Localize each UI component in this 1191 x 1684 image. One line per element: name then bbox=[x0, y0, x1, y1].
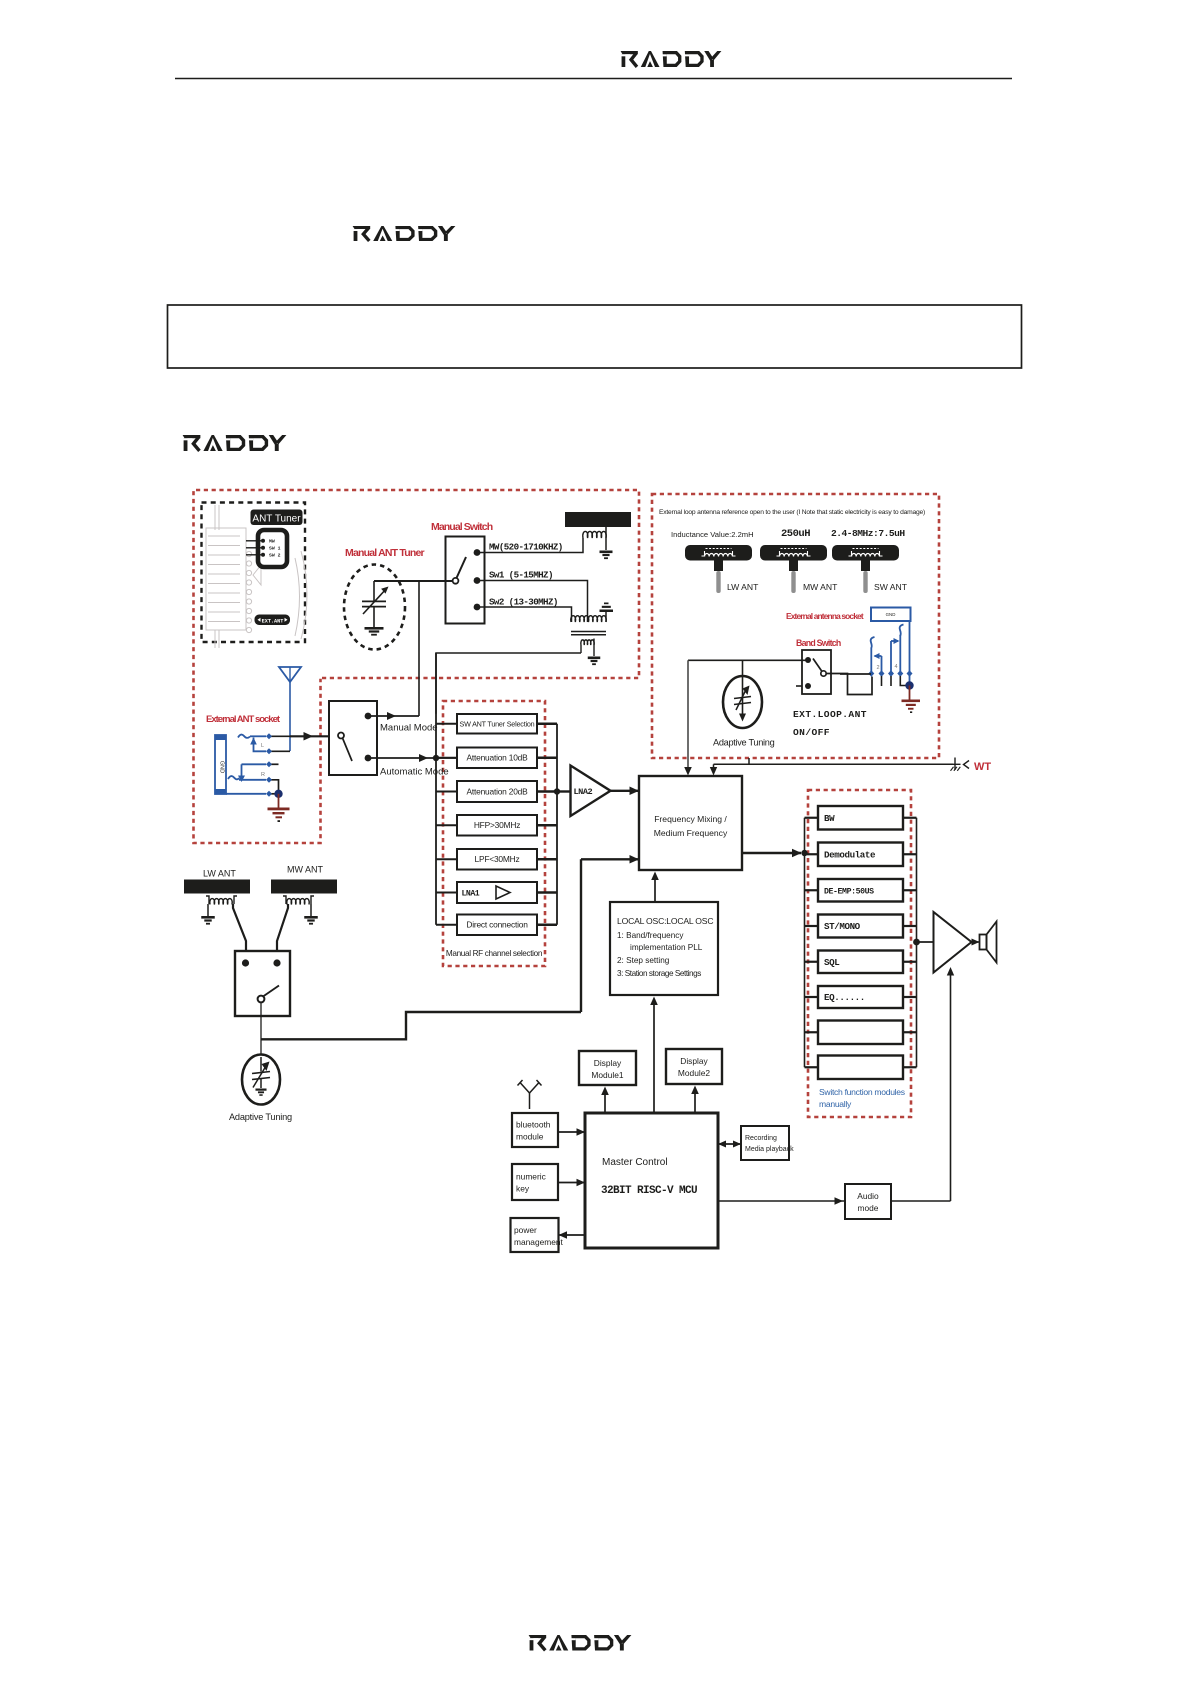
svg-text:32BIT RISC-V MCU: 32BIT RISC-V MCU bbox=[601, 1185, 697, 1197]
jack contact 1 (hook) bbox=[871, 637, 875, 649]
wire: ring contact to antenna lead bbox=[269, 750, 290, 752]
wire stubs: LNA1 bbox=[436, 892, 457, 894]
wire stubs: Attenuation 10dB bbox=[436, 757, 457, 759]
svg-text:External loop antenna referenc: External loop antenna reference open to … bbox=[659, 509, 925, 516]
wire: tuned LW/MW into mixer bbox=[581, 858, 639, 860]
svg-text:management: management bbox=[514, 1237, 564, 1247]
ground (MW bar) bbox=[600, 551, 613, 554]
wire stubs: Demodulate block bbox=[805, 853, 819, 855]
svg-text:Sw1 (5-15MHZ): Sw1 (5-15MHZ) bbox=[489, 570, 553, 581]
RADDY logo (footer) bbox=[528, 1635, 631, 1651]
wire: transformer to RF bus bbox=[436, 653, 581, 714]
red dashed region: manual RF channel selection bbox=[443, 701, 545, 966]
block: DE-EMP:50US bbox=[818, 879, 903, 902]
svg-text:bluetooth: bluetooth bbox=[516, 1120, 551, 1130]
svg-text:SW 1: SW 1 bbox=[269, 546, 281, 552]
wire stubs: Attenuation 20dB bbox=[436, 791, 457, 793]
LW/MW switch box bbox=[235, 951, 290, 1016]
manual tuner dashed ellipse bbox=[344, 565, 405, 650]
MW loop antenna bar bbox=[760, 545, 827, 561]
wire: MCU to LO bbox=[653, 1004, 655, 1113]
switch contacts bbox=[474, 549, 481, 556]
svg-text:MW: MW bbox=[269, 539, 275, 545]
svg-text:EQ......: EQ...... bbox=[824, 992, 865, 1003]
red dashed region: switch function modules bbox=[808, 790, 911, 1117]
svg-text:SW ANT: SW ANT bbox=[874, 582, 908, 592]
header rule bbox=[175, 78, 1012, 80]
block: SQL bbox=[818, 951, 903, 974]
svg-text:3: Station storage Settings: 3: Station storage Settings bbox=[617, 969, 701, 978]
ground (manual tuner) bbox=[365, 627, 384, 630]
wire stubs: HFP>30MHz bbox=[436, 824, 457, 826]
svg-text:Module1: Module1 bbox=[591, 1070, 623, 1080]
block: LNA1 bbox=[457, 882, 537, 903]
wire: MW to ferrite bar bbox=[477, 538, 583, 553]
svg-text:LW ANT: LW ANT bbox=[727, 582, 759, 592]
svg-text:Automatic Mode: Automatic Mode bbox=[380, 767, 449, 778]
svg-text:Module2: Module2 bbox=[678, 1068, 710, 1078]
block: LPF<30MHz bbox=[457, 849, 537, 870]
svg-text:GND: GND bbox=[219, 761, 225, 773]
svg-text:SW ANT Tuner Selection: SW ANT Tuner Selection bbox=[460, 720, 535, 729]
svg-text:WT: WT bbox=[974, 761, 991, 773]
wire stubs: SW ANT Tuner Selection bbox=[436, 723, 457, 725]
wire+ground (LW) bbox=[207, 904, 209, 916]
tuner input pins bbox=[246, 540, 261, 542]
block: SW ANT Tuner Selection bbox=[457, 714, 537, 734]
svg-text:key: key bbox=[516, 1184, 530, 1194]
LW/MW lever bbox=[258, 996, 265, 1003]
LW loop antenna bar bbox=[685, 545, 752, 561]
svg-text:Attenuation 10dB: Attenuation 10dB bbox=[466, 753, 528, 763]
svg-text:Manual Switch: Manual Switch bbox=[431, 521, 493, 533]
svg-text:Manual ANT Tuner: Manual ANT Tuner bbox=[345, 547, 424, 559]
red dashed region: external loop antenna bbox=[652, 494, 939, 758]
EXT.ANT label bbox=[255, 615, 291, 626]
band switch lever bbox=[821, 671, 826, 676]
svg-text:1: Band/frequency: 1: Band/frequency bbox=[617, 931, 684, 940]
MW coil bbox=[283, 896, 286, 904]
svg-text:Manual RF channel selection: Manual RF channel selection bbox=[446, 949, 543, 958]
wire: MCU to display2 bbox=[694, 1091, 696, 1113]
svg-text:MW ANT: MW ANT bbox=[287, 865, 323, 875]
wire: numeric key to MCU bbox=[558, 1182, 585, 1184]
wire stubs: BW block bbox=[805, 817, 819, 819]
svg-text:DE-EMP:50US: DE-EMP:50US bbox=[824, 887, 874, 896]
jack contact 4 (hook) with arrow bbox=[900, 625, 904, 637]
svg-text:module: module bbox=[516, 1132, 544, 1142]
socket contact hook L bbox=[238, 735, 250, 738]
svg-text:250uH: 250uH bbox=[781, 528, 810, 540]
svg-text:ON/OFF: ON/OFF bbox=[793, 727, 830, 738]
block: spare bbox=[818, 1056, 903, 1080]
contact pins (black) bbox=[881, 676, 883, 686]
wire: MCU to audio mode bbox=[718, 1200, 845, 1202]
junction dot on RF bus bbox=[433, 755, 439, 761]
svg-text:MW(520-1710KHZ): MW(520-1710KHZ) bbox=[489, 542, 563, 553]
SW transformer primary bbox=[571, 616, 606, 622]
svg-text:Recording: Recording bbox=[745, 1135, 777, 1142]
svg-text:mode: mode bbox=[858, 1203, 879, 1213]
block: BW bbox=[818, 806, 903, 830]
audio amplifier bbox=[934, 912, 972, 973]
svg-text:EXT.LOOP.ANT: EXT.LOOP.ANT bbox=[793, 709, 867, 720]
wire: band switch to mixer bbox=[688, 659, 808, 661]
RADDY logo (page header) bbox=[620, 51, 721, 67]
ground (ext socket, dark red) bbox=[278, 794, 280, 808]
svg-text:External ANT socket: External ANT socket bbox=[206, 714, 281, 725]
jack contact 3 bbox=[890, 641, 892, 674]
svg-text:LOCAL OSC:LOCAL OSC: LOCAL OSC:LOCAL OSC bbox=[617, 916, 713, 926]
wire stubs: LPF<30MHz bbox=[436, 858, 457, 860]
socket contact arrow up bbox=[250, 738, 257, 745]
svg-text:Audio: Audio bbox=[857, 1191, 879, 1201]
wire: common to manual mode bbox=[374, 580, 453, 582]
block: Direct connection bbox=[457, 915, 537, 936]
tuning capacitor plates bbox=[734, 697, 751, 699]
LW/MW contacts bbox=[242, 959, 249, 966]
wire stubs: Direct connection bbox=[436, 924, 457, 926]
band switch contacts bbox=[805, 657, 811, 663]
block: EQ...... bbox=[818, 986, 903, 1008]
RADDY logo (diagram header) bbox=[182, 435, 286, 451]
mode contacts bbox=[365, 713, 372, 720]
contact diamonds (socket) bbox=[266, 733, 272, 739]
band switch box bbox=[802, 650, 831, 694]
svg-text:ST/MONO: ST/MONO bbox=[824, 921, 861, 932]
svg-text:GND: GND bbox=[886, 612, 896, 617]
mode lever bbox=[338, 733, 344, 739]
socket contact hook R bbox=[228, 776, 239, 779]
power management box bbox=[511, 1218, 559, 1252]
svg-text:LW ANT: LW ANT bbox=[203, 869, 236, 879]
svg-text:Manual Mode: Manual Mode bbox=[380, 723, 438, 734]
svg-text:HFP>30MHz: HFP>30MHz bbox=[474, 820, 520, 830]
display module 1 box bbox=[579, 1051, 636, 1085]
wire: Sw2 to transformer bbox=[477, 607, 572, 622]
wire stubs: SQL block bbox=[805, 961, 819, 963]
block: Attenuation 10dB bbox=[457, 748, 537, 769]
wire: LO to mixer bbox=[654, 877, 656, 902]
numeric key box bbox=[512, 1164, 558, 1200]
wire: manual mode bbox=[368, 715, 419, 717]
wire: to audio amp bbox=[917, 941, 934, 943]
svg-text:L: L bbox=[261, 743, 264, 749]
jack body (blue) bbox=[215, 735, 226, 794]
svg-text:Display: Display bbox=[680, 1056, 708, 1066]
svg-text:LPF<30MHz: LPF<30MHz bbox=[475, 854, 520, 864]
junction dot (LNA2 input) bbox=[554, 788, 560, 794]
wire: adaptive tuning branch bbox=[742, 660, 744, 715]
speaker bbox=[980, 935, 987, 950]
svg-text:Adaptive Tuning: Adaptive Tuning bbox=[713, 738, 775, 748]
tuning capacitor (LW/MW) bbox=[260, 1057, 262, 1072]
svg-text:Inductance Value:2.2mH: Inductance Value:2.2mH bbox=[671, 530, 754, 539]
display module 2 box bbox=[666, 1049, 722, 1084]
svg-text:2: Step setting: 2: Step setting bbox=[617, 956, 670, 965]
wire stubs: spare block bbox=[805, 1031, 819, 1033]
jack contact 2 with arrow bbox=[881, 656, 883, 674]
demod bus (right) bbox=[916, 818, 918, 1068]
svg-text:BW: BW bbox=[824, 813, 835, 824]
wire: MCU to power management bbox=[559, 1234, 586, 1236]
svg-text:External antenna socket: External antenna socket bbox=[786, 611, 864, 621]
svg-text:Display: Display bbox=[594, 1058, 622, 1068]
LW ferrite bar bbox=[184, 880, 250, 894]
WT mark bbox=[954, 758, 956, 771]
contact row 2 bbox=[242, 763, 267, 765]
wire: MCU to display1 bbox=[604, 1092, 606, 1113]
RF bus (right) bbox=[556, 724, 558, 925]
wire: amp to speaker bbox=[972, 941, 980, 943]
wire: bluetooth to MCU bbox=[558, 1131, 585, 1133]
MW bar coil bbox=[583, 531, 606, 538]
svg-text:4: 4 bbox=[895, 664, 898, 670]
RADDY logo (document header) bbox=[352, 226, 455, 241]
LW coil bbox=[206, 896, 209, 904]
block: Demodulate bbox=[818, 843, 903, 867]
blue wire: socket down to junction bbox=[909, 621, 911, 686]
ground (external socket, dark red) bbox=[909, 686, 911, 700]
adaptive tuning ellipse (LW/MW) bbox=[242, 1055, 280, 1105]
svg-text:SW 2: SW 2 bbox=[269, 553, 281, 559]
wire: bus to LNA2 bbox=[557, 790, 571, 792]
switch lever bbox=[457, 557, 467, 578]
demod bus (left) bbox=[804, 818, 806, 1068]
junction dot (socket gnd) bbox=[274, 790, 282, 798]
local oscillator box bbox=[610, 902, 718, 995]
antenna stub symbol bbox=[604, 603, 609, 605]
ANT Tuner label bbox=[251, 510, 303, 526]
variable capacitor (manual tuner) bbox=[373, 581, 375, 601]
red dashed region: manual antenna tuning (L-shape) bbox=[194, 490, 640, 843]
svg-text:manually: manually bbox=[819, 1099, 852, 1109]
block: ST/MONO bbox=[818, 915, 903, 938]
SW loop antenna bar bbox=[832, 545, 899, 561]
svg-text:Attenuation 20dB: Attenuation 20dB bbox=[466, 786, 528, 796]
wire: MCU <-> recording bbox=[718, 1143, 741, 1145]
bluetooth antenna bbox=[529, 1093, 531, 1109]
svg-text:Demodulate: Demodulate bbox=[824, 849, 876, 860]
PCB sketch (gray) bbox=[206, 505, 307, 648]
svg-text:Direct connection: Direct connection bbox=[466, 920, 528, 930]
svg-text:Media playback: Media playback bbox=[745, 1146, 794, 1153]
wire+ground (MW) bbox=[310, 904, 312, 916]
wire: contact row 3 down to gnd junction bbox=[269, 780, 279, 791]
svg-text:power: power bbox=[514, 1225, 537, 1235]
mixer box: Frequency Mixing / Medium Frequency bbox=[639, 776, 742, 870]
svg-text:2: 2 bbox=[877, 665, 880, 671]
tuner IC outline bbox=[258, 530, 287, 567]
svg-text:Switch function modules: Switch function modules bbox=[819, 1087, 905, 1097]
wire: Sw1 to transformer bbox=[477, 581, 588, 623]
wire: switch to adaptive tuning bbox=[260, 1003, 262, 1056]
junction dot (navy) bbox=[905, 681, 913, 689]
wire: automatic mode to bus bbox=[368, 757, 457, 759]
svg-text:2.4-8MHz:7.5uH: 2.4-8MHz:7.5uH bbox=[831, 528, 905, 539]
ground (adaptive LW/MW) bbox=[255, 1089, 266, 1091]
LNA2 amplifier bbox=[571, 766, 611, 817]
junction dot (audio out) bbox=[913, 939, 920, 946]
MCU box: Master Control bbox=[585, 1113, 718, 1248]
MW ferrite bar bbox=[271, 880, 337, 894]
svg-text:EXT.ANT: EXT.ANT bbox=[262, 618, 284, 624]
bluetooth module box bbox=[512, 1113, 558, 1147]
wire: WT line bbox=[714, 763, 954, 765]
svg-text:Frequency Mixing /: Frequency Mixing / bbox=[654, 814, 727, 824]
ground (SW transformer) bbox=[588, 657, 601, 660]
sleeve wire bbox=[226, 793, 266, 795]
GND socket box (blue) bbox=[871, 608, 911, 622]
audio mode box bbox=[845, 1184, 891, 1219]
svg-text:R: R bbox=[261, 772, 265, 778]
wire stubs: EQ...... block bbox=[805, 996, 819, 998]
MW ferrite bar antenna bbox=[565, 512, 631, 527]
empty note box bbox=[168, 305, 1022, 368]
contact junction diamonds bbox=[868, 670, 874, 676]
manual band switch box bbox=[446, 537, 485, 624]
svg-text:Medium Frequency: Medium Frequency bbox=[654, 828, 728, 838]
recording media playback box bbox=[741, 1126, 789, 1160]
svg-text:SQL: SQL bbox=[824, 957, 840, 968]
svg-text:MW ANT: MW ANT bbox=[803, 582, 838, 592]
svg-text:implementation PLL: implementation PLL bbox=[630, 943, 703, 952]
wire stubs: DE-EMP:50US block bbox=[805, 889, 819, 891]
svg-text:Sw2 (13-30MHZ): Sw2 (13-30MHZ) bbox=[489, 597, 558, 608]
svg-text:Master Control: Master Control bbox=[602, 1157, 668, 1168]
wire: audio mode to amp bbox=[950, 974, 952, 1201]
wire: tuned signal to mixer (thick) bbox=[261, 1012, 581, 1039]
SW transformer secondary bbox=[581, 640, 594, 645]
wire stubs: ST/MONO block bbox=[805, 925, 819, 927]
wire: tip contact to switch bbox=[269, 735, 290, 737]
wire: mixer to demod bus bbox=[742, 852, 801, 854]
adaptive tuning ellipse (loop ant) bbox=[723, 676, 762, 728]
wire: audio mode to amp riser bbox=[891, 1200, 951, 1202]
svg-text:ANT Tuner: ANT Tuner bbox=[252, 514, 301, 525]
svg-text:LNA2: LNA2 bbox=[574, 787, 593, 797]
wire stubs: spare block bbox=[805, 1066, 819, 1068]
wire: LNA2 to mixer bbox=[611, 790, 640, 792]
svg-text:Band Switch: Band Switch bbox=[796, 638, 841, 648]
wire: band switch lever to contacts (U jog) bbox=[826, 674, 872, 695]
svg-text:LNA1: LNA1 bbox=[462, 890, 480, 899]
block: Attenuation 20dB bbox=[457, 781, 537, 802]
whip antenna bbox=[279, 667, 301, 682]
black dashed box: ANT Tuner photo bbox=[202, 503, 306, 643]
mode switch box bbox=[329, 701, 377, 775]
svg-text:Adaptive Tuning: Adaptive Tuning bbox=[229, 1112, 292, 1122]
block: spare bbox=[818, 1021, 903, 1045]
block: HFP>30MHz bbox=[457, 815, 537, 836]
svg-text:numeric: numeric bbox=[516, 1172, 546, 1182]
RF bus (left) bbox=[435, 653, 437, 925]
